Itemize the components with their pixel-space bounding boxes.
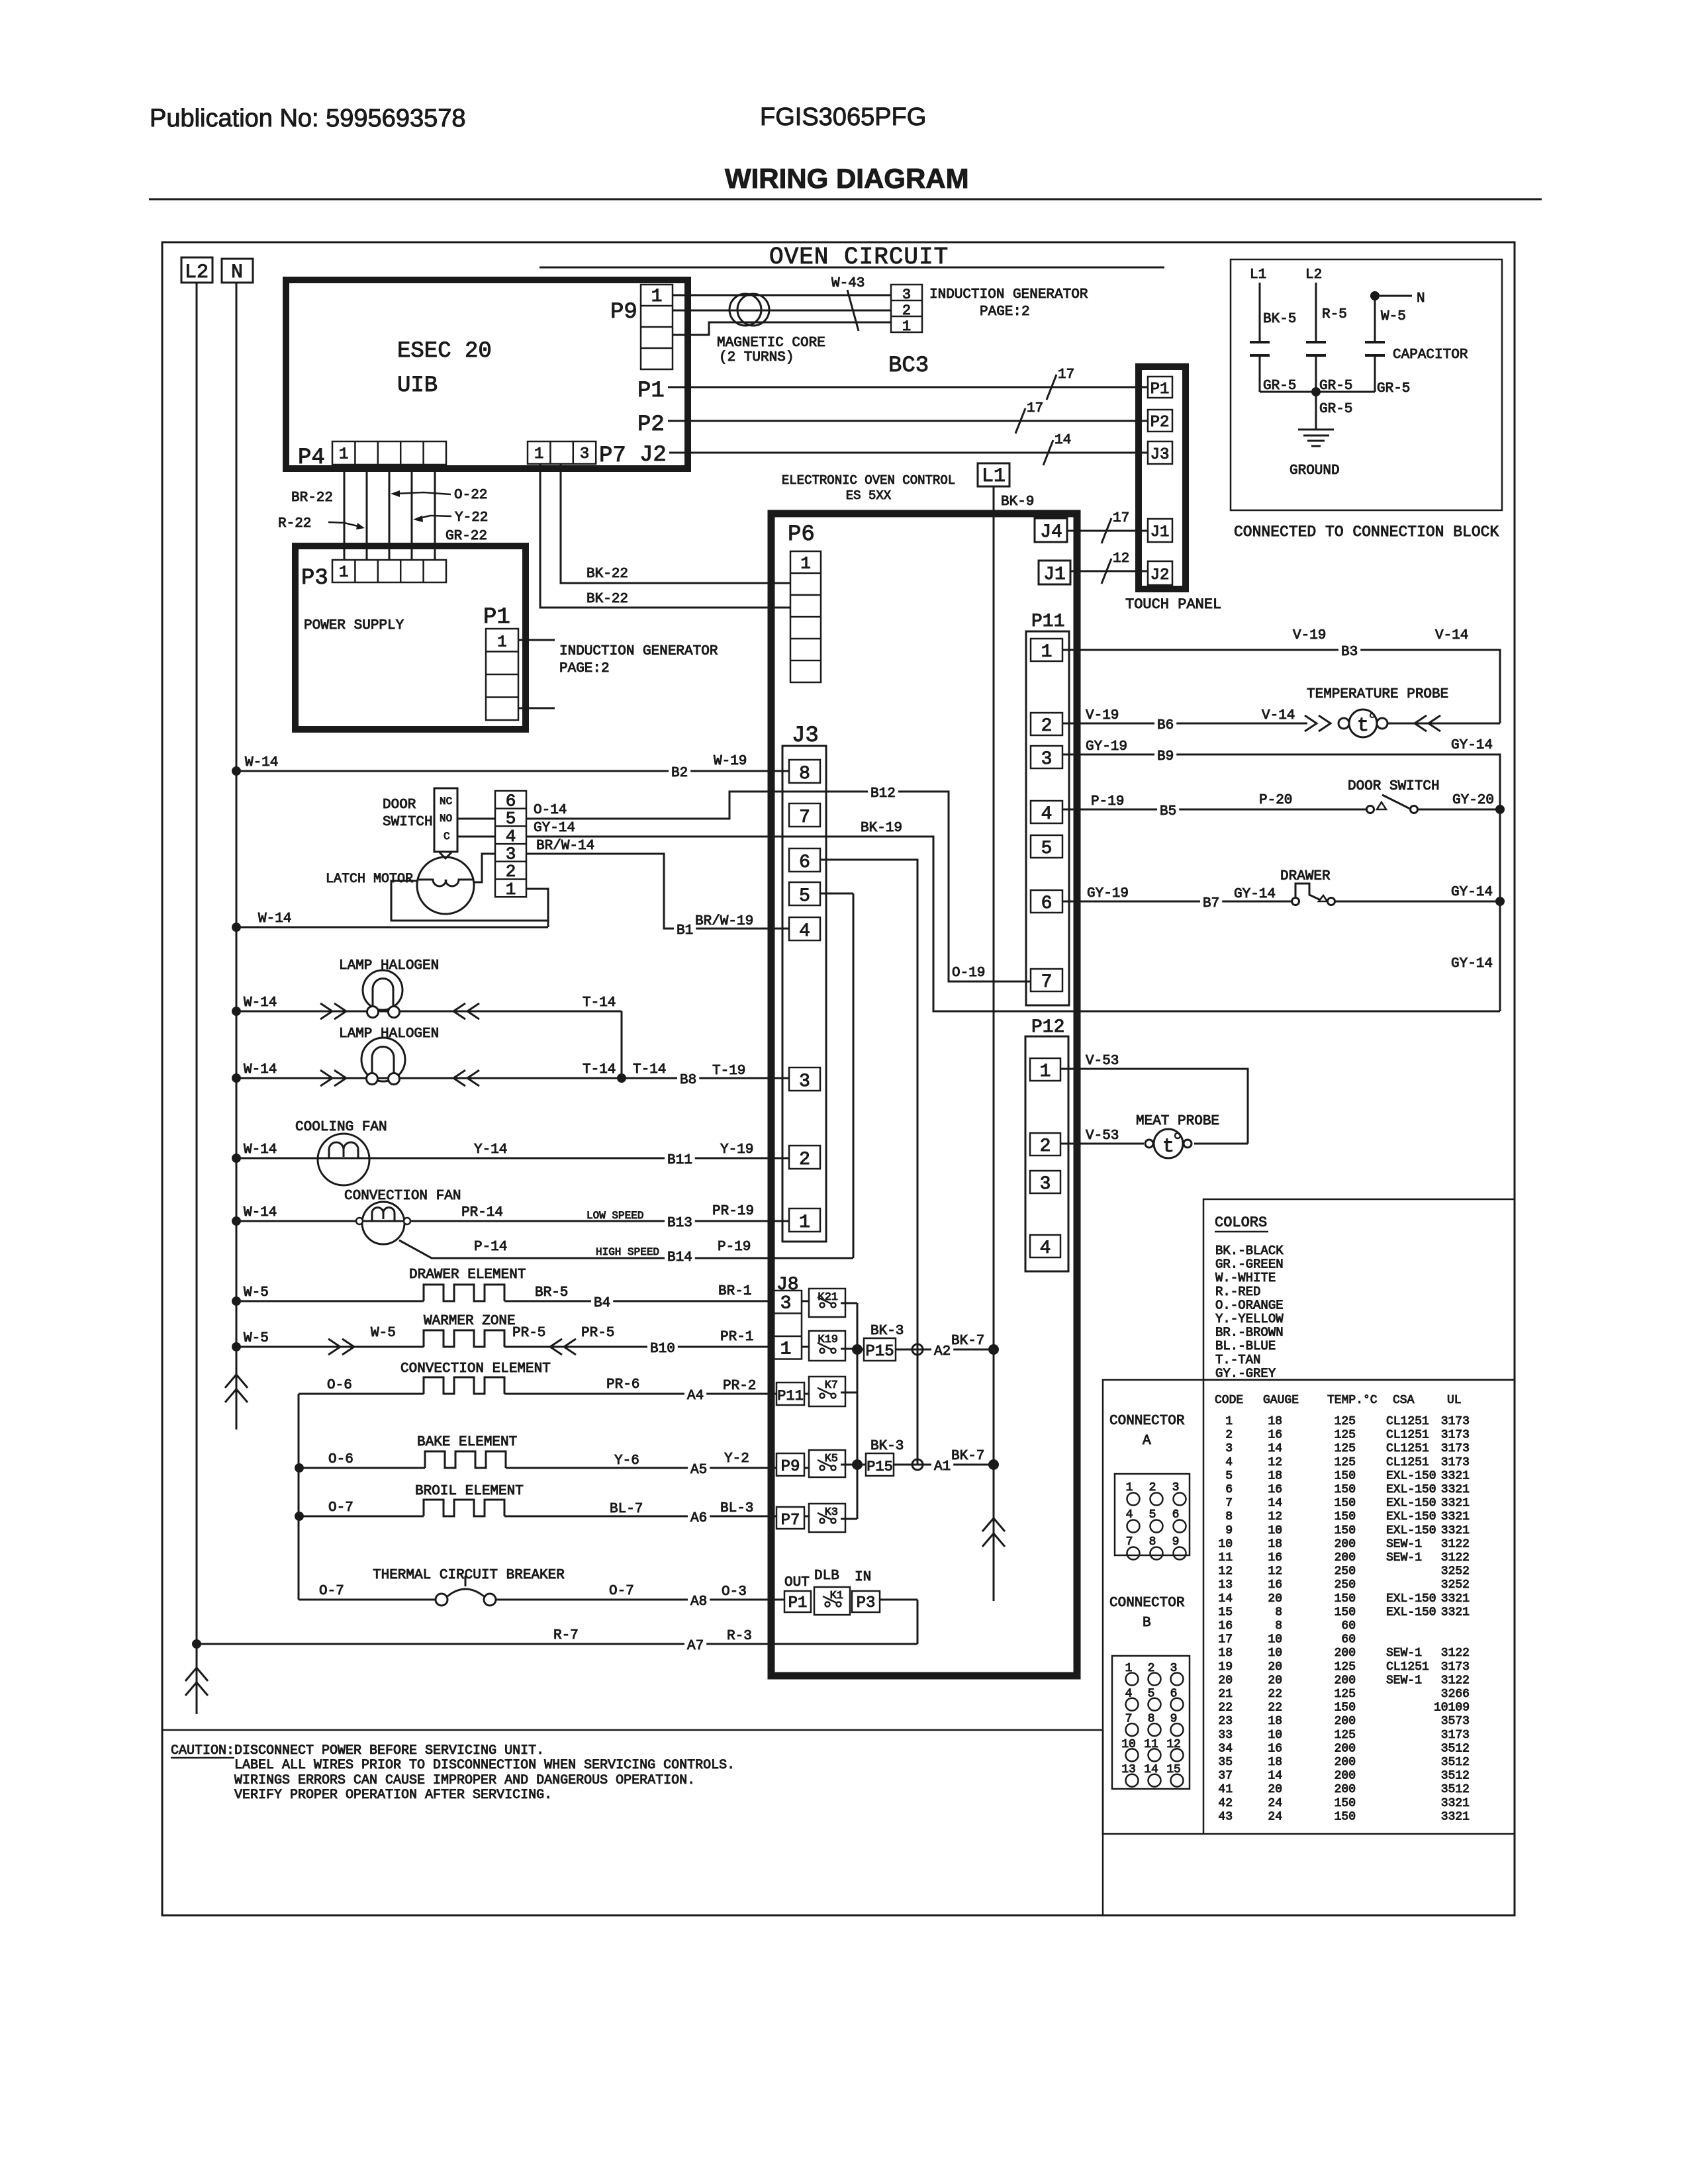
svg-text:P1: P1 xyxy=(637,379,665,404)
wire convection fan high speed to J3-5 xyxy=(399,1240,853,1258)
connector J3 pin 1 xyxy=(789,1208,820,1232)
svg-text:10: 10 xyxy=(1268,1729,1282,1742)
connector P11 pin 5 xyxy=(1031,835,1062,858)
svg-text:GY-14: GY-14 xyxy=(1451,738,1493,753)
wire code table divider xyxy=(1203,1380,1205,1834)
svg-text:BR.-BROWN: BR.-BROWN xyxy=(1215,1326,1284,1340)
wire BK-22 from P7-2 to P6-2 xyxy=(561,464,790,583)
lamp halogen 2 xyxy=(361,1038,405,1081)
svg-text:B: B xyxy=(1143,1615,1151,1631)
svg-text:Y-19: Y-19 xyxy=(720,1142,753,1158)
meat probe xyxy=(1145,1140,1153,1148)
svg-text:GR-5: GR-5 xyxy=(1377,381,1410,396)
svg-text:t: t xyxy=(1162,1136,1174,1158)
svg-text:TEMPERATURE PROBE: TEMPERATURE PROBE xyxy=(1307,687,1448,702)
wire lamp1 to lamp2 row drop xyxy=(621,1011,623,1078)
svg-text:UIB: UIB xyxy=(397,373,438,398)
svg-text:Publication No: 5995693578: Publication No: 5995693578 xyxy=(150,105,466,132)
svg-text:DRAWER: DRAWER xyxy=(1280,869,1331,884)
svg-text:W-14: W-14 xyxy=(258,911,291,927)
convection fan motor xyxy=(362,1202,404,1244)
svg-text:CSA: CSA xyxy=(1393,1394,1415,1407)
lamp2 inline connector chevrons xyxy=(320,1070,332,1086)
svg-text:J2: J2 xyxy=(639,443,667,468)
svg-text:200: 200 xyxy=(1335,1756,1356,1769)
svg-text:BL-7: BL-7 xyxy=(610,1502,643,1517)
wire P4-1 to P3-1 xyxy=(344,465,346,560)
svg-text:14: 14 xyxy=(1268,1770,1282,1783)
svg-text:O-14: O-14 xyxy=(534,803,567,818)
svg-text:10109: 10109 xyxy=(1434,1702,1470,1715)
svg-text:OUT: OUT xyxy=(784,1575,810,1590)
wire J4 to touch panel J1 xyxy=(1067,530,1148,532)
svg-text:18: 18 xyxy=(1268,1756,1282,1769)
svg-text:3: 3 xyxy=(799,1071,810,1092)
svg-text:T-14: T-14 xyxy=(633,1062,666,1077)
svg-text:Y-22: Y-22 xyxy=(455,510,488,525)
wire GY-19 / B7 / GY-14 from P11-6 to drawer switch xyxy=(1062,901,1291,903)
svg-text:P15: P15 xyxy=(867,1459,893,1475)
svg-text:LOW SPEED: LOW SPEED xyxy=(586,1210,643,1222)
svg-text:3: 3 xyxy=(1040,1174,1051,1195)
wire P-19 / B5 / P-20 from P11-4 to door switch xyxy=(1062,809,1366,811)
wire W-14 lamp2 row to J3-3 xyxy=(232,1073,241,1083)
svg-text:W-14: W-14 xyxy=(244,1142,277,1158)
wire J3-6 drop to A2/A1 connectors xyxy=(820,860,917,1465)
wire meat probe to V-53 loop xyxy=(1194,1143,1248,1145)
svg-text:33: 33 xyxy=(1218,1729,1233,1742)
connector J3 pin 4 xyxy=(789,917,820,940)
svg-text:5: 5 xyxy=(799,886,810,907)
svg-text:CAUTION:: CAUTION: xyxy=(171,1743,234,1758)
svg-text:EXL-150: EXL-150 xyxy=(1386,1592,1436,1606)
svg-text:P4: P4 xyxy=(298,445,325,471)
svg-text:20: 20 xyxy=(1268,1674,1282,1687)
svg-text:CL1251: CL1251 xyxy=(1386,1415,1429,1428)
svg-text:NO: NO xyxy=(440,813,452,825)
svg-text:P11: P11 xyxy=(777,1388,804,1404)
svg-text:13: 13 xyxy=(1218,1578,1233,1592)
svg-text:BR/W-19: BR/W-19 xyxy=(695,914,753,929)
svg-text:2: 2 xyxy=(799,1150,810,1170)
door switch connector cells 6-1 xyxy=(495,791,526,897)
cooling fan motor xyxy=(318,1134,369,1185)
svg-text:1: 1 xyxy=(799,1212,810,1233)
oven circuit underline xyxy=(539,267,1164,269)
svg-text:5: 5 xyxy=(506,809,516,829)
svg-text:EXL-150: EXL-150 xyxy=(1386,1510,1436,1524)
svg-text:B10: B10 xyxy=(650,1342,675,1357)
svg-text:20: 20 xyxy=(1268,1592,1282,1606)
svg-text:N: N xyxy=(231,261,243,284)
svg-text:O-6: O-6 xyxy=(328,1452,353,1467)
svg-text:22: 22 xyxy=(1268,1702,1282,1715)
temperature probe right side chevrons and wire xyxy=(1387,723,1500,725)
svg-text:BK.-BLACK: BK.-BLACK xyxy=(1215,1244,1284,1258)
svg-text:20: 20 xyxy=(1268,1783,1282,1796)
svg-text:T-14: T-14 xyxy=(583,1062,616,1077)
svg-text:EXL-150: EXL-150 xyxy=(1386,1497,1436,1510)
svg-text:P-19: P-19 xyxy=(1091,794,1124,809)
svg-text:P1: P1 xyxy=(788,1594,808,1612)
svg-text:WIRINGS ERRORS CAN CAUSE IMPRO: WIRINGS ERRORS CAN CAUSE IMPROPER AND DA… xyxy=(234,1773,695,1788)
svg-text:60: 60 xyxy=(1341,1633,1356,1647)
svg-text:V-19: V-19 xyxy=(1086,708,1119,723)
svg-text:BK-9: BK-9 xyxy=(1001,494,1034,510)
svg-text:A8: A8 xyxy=(690,1594,707,1610)
node N box xyxy=(222,259,253,283)
svg-text:3173: 3173 xyxy=(1441,1456,1470,1469)
svg-text:16: 16 xyxy=(1268,1578,1282,1592)
relay K21 xyxy=(809,1289,845,1317)
svg-text:BK-7: BK-7 xyxy=(951,1334,984,1349)
svg-text:125: 125 xyxy=(1335,1429,1356,1442)
wire P4-4 to P3-4 xyxy=(411,465,413,560)
node L1 box xyxy=(978,463,1009,486)
svg-text:A4: A4 xyxy=(687,1388,704,1404)
svg-text:L2: L2 xyxy=(1305,267,1322,283)
svg-text:W-5: W-5 xyxy=(244,1331,269,1346)
svg-text:2: 2 xyxy=(1041,716,1053,737)
module TOUCH PANEL xyxy=(1139,367,1186,589)
svg-text:12: 12 xyxy=(1113,551,1129,567)
connector P11 pin 6 xyxy=(1031,890,1062,913)
wire GY-20 door switch to bus junction xyxy=(1418,809,1500,811)
svg-text:125: 125 xyxy=(1335,1729,1356,1742)
svg-text:16: 16 xyxy=(1268,1483,1282,1496)
svg-text:MAGNETIC CORE: MAGNETIC CORE xyxy=(717,336,825,351)
svg-text:T.-TAN: T.-TAN xyxy=(1215,1353,1260,1367)
connector P11 pin 1 xyxy=(1031,639,1062,661)
svg-text:L1: L1 xyxy=(982,465,1006,488)
svg-text:PAGE:2: PAGE:2 xyxy=(980,304,1030,320)
svg-text:PAGE:2: PAGE:2 xyxy=(559,661,610,676)
svg-text:O-3: O-3 xyxy=(722,1584,747,1600)
wire O-6 convection element row to P11 relay box xyxy=(299,1393,424,1395)
svg-text:B9: B9 xyxy=(1157,749,1174,764)
svg-text:SEW-1: SEW-1 xyxy=(1386,1647,1422,1660)
svg-text:DISCONNECT POWER BEFORE SERVIC: DISCONNECT POWER BEFORE SERVICING UNIT. xyxy=(234,1743,544,1758)
svg-text:CL1251: CL1251 xyxy=(1386,1661,1429,1674)
svg-text:3: 3 xyxy=(506,844,516,864)
svg-text:22: 22 xyxy=(1268,1688,1282,1701)
svg-text:17: 17 xyxy=(1058,367,1074,383)
connector P12 pin 2 xyxy=(1030,1133,1060,1156)
svg-text:W-5: W-5 xyxy=(1381,309,1406,324)
svg-text:P2: P2 xyxy=(637,412,665,437)
wire K19 output to node xyxy=(841,1348,857,1350)
wire N bus vertical xyxy=(236,283,238,1430)
svg-text:EXL-150: EXL-150 xyxy=(1386,1524,1436,1537)
svg-text:CONVECTION FAN: CONVECTION FAN xyxy=(344,1189,461,1204)
svg-text:200: 200 xyxy=(1335,1551,1356,1565)
svg-text:SWITCH: SWITCH xyxy=(383,815,433,830)
wire V-19 / B3 / V-14 from P11-1 xyxy=(1062,650,1500,723)
EOC connector J4 box xyxy=(1035,518,1067,542)
svg-text:P1: P1 xyxy=(1150,381,1170,398)
svg-text:24: 24 xyxy=(1268,1810,1282,1823)
svg-text:O-7: O-7 xyxy=(609,1584,634,1599)
svg-text:L1: L1 xyxy=(1250,267,1266,283)
wire K5 output node xyxy=(841,1464,857,1466)
svg-text:CONNECTOR: CONNECTOR xyxy=(1109,1596,1185,1611)
svg-text:150: 150 xyxy=(1335,1524,1356,1537)
connector P11 pin 4 xyxy=(1031,801,1062,823)
relay output bus vertical xyxy=(857,1303,859,1519)
svg-text:1: 1 xyxy=(651,287,663,307)
svg-text:150: 150 xyxy=(1335,1592,1356,1606)
tick 17 on P1 wire xyxy=(1047,375,1056,400)
touch panel pin J2 xyxy=(1148,561,1172,585)
svg-text:BC3: BC3 xyxy=(888,353,929,379)
svg-text:14: 14 xyxy=(1268,1442,1282,1455)
svg-text:200: 200 xyxy=(1335,1783,1356,1796)
svg-text:250: 250 xyxy=(1335,1565,1356,1578)
svg-text:37: 37 xyxy=(1218,1770,1233,1783)
module ELECTRONIC OVEN CONTROL ES 5XX xyxy=(771,514,1077,1676)
svg-text:BROIL ELEMENT: BROIL ELEMENT xyxy=(415,1484,524,1499)
connector J3 pin 8 xyxy=(789,760,820,783)
svg-text:34: 34 xyxy=(1218,1742,1233,1755)
latch motor xyxy=(417,857,474,914)
svg-text:W-14: W-14 xyxy=(245,755,278,770)
svg-text:N: N xyxy=(1417,291,1425,306)
svg-text:3321: 3321 xyxy=(1441,1592,1470,1606)
svg-text:2: 2 xyxy=(1040,1136,1051,1157)
tick 14 on J2 wire xyxy=(1043,440,1053,465)
wire latch motor right to pin 1... pin3 xyxy=(474,854,495,882)
svg-text:18: 18 xyxy=(1268,1469,1282,1482)
N bus continuation chevrons xyxy=(225,1375,248,1388)
connector J3 pin 7 xyxy=(789,803,820,827)
wire V-19/B6/V-14 from P11-2 to temperature probe xyxy=(1062,723,1307,725)
capacitor block enclosure xyxy=(1231,259,1502,510)
svg-text:PR-5: PR-5 xyxy=(581,1326,614,1341)
svg-text:4: 4 xyxy=(1041,804,1053,825)
svg-text:3321: 3321 xyxy=(1441,1469,1470,1482)
svg-text:SEW-1: SEW-1 xyxy=(1386,1674,1422,1687)
svg-text:A: A xyxy=(1143,1433,1151,1449)
wire GY-19 / B9 / GY-14 from P11-3 to right bus xyxy=(1062,754,1500,809)
svg-text:T-19: T-19 xyxy=(712,1064,745,1079)
svg-text:DLB: DLB xyxy=(814,1569,839,1584)
svg-text:R-5: R-5 xyxy=(1322,307,1347,322)
svg-text:L2: L2 xyxy=(185,261,209,284)
svg-text:B6: B6 xyxy=(1157,718,1174,733)
svg-text:P6: P6 xyxy=(788,522,815,547)
connector P12 pin 3 xyxy=(1030,1171,1060,1193)
wire P4-3 to P3-3 xyxy=(389,465,391,560)
door switch contact xyxy=(1367,806,1374,813)
svg-text:3321: 3321 xyxy=(1441,1524,1470,1537)
lamp halogen 1 xyxy=(363,970,402,1010)
svg-text:150: 150 xyxy=(1335,1797,1356,1810)
svg-text:11: 11 xyxy=(1218,1551,1233,1565)
svg-text:200: 200 xyxy=(1335,1674,1356,1687)
svg-text:4: 4 xyxy=(1040,1238,1051,1259)
wire C to pin 4 xyxy=(457,836,495,838)
touch panel pin P1 xyxy=(1148,377,1172,398)
relay K3 xyxy=(809,1504,845,1532)
wire K21 output xyxy=(841,1302,857,1304)
svg-text:P7: P7 xyxy=(781,1512,800,1529)
svg-text:W-5: W-5 xyxy=(371,1326,396,1341)
svg-text:4: 4 xyxy=(506,827,516,846)
svg-text:B3: B3 xyxy=(1341,645,1358,660)
svg-text:3173: 3173 xyxy=(1441,1415,1470,1428)
svg-text:W-14: W-14 xyxy=(244,995,277,1011)
svg-text:10: 10 xyxy=(1268,1524,1282,1537)
svg-text:BL-3: BL-3 xyxy=(720,1501,753,1516)
wire W-14 convection fan row (low speed) to J3-1 xyxy=(232,1216,241,1226)
svg-text:TOUCH PANEL: TOUCH PANEL xyxy=(1125,596,1221,613)
svg-text:200: 200 xyxy=(1335,1715,1356,1728)
svg-text:18: 18 xyxy=(1268,1715,1282,1728)
svg-text:J8: J8 xyxy=(776,1275,799,1295)
BK-9 continuation chevrons xyxy=(982,1518,1005,1531)
wire O-14 / B12 / O-19 from pin5 to P11-7 xyxy=(526,792,1031,981)
svg-text:BR-1: BR-1 xyxy=(718,1284,751,1299)
svg-text:1: 1 xyxy=(534,445,543,463)
svg-text:NC: NC xyxy=(440,796,452,807)
wire P4-2 to P3-2 xyxy=(366,465,368,560)
wire W-5 warmer zone row to J8-1 xyxy=(232,1342,241,1351)
wire W-14 bus row 2 xyxy=(232,923,241,932)
svg-text:P7: P7 xyxy=(599,443,626,469)
connector B pin chart xyxy=(1112,1656,1190,1789)
svg-text:Y-14: Y-14 xyxy=(474,1142,507,1158)
svg-text:20: 20 xyxy=(1268,1661,1282,1674)
svg-text:BK-19: BK-19 xyxy=(861,821,902,836)
svg-text:CODE: CODE xyxy=(1215,1394,1243,1407)
svg-text:18: 18 xyxy=(1268,1415,1282,1428)
svg-text:COLORS: COLORS xyxy=(1215,1214,1267,1231)
svg-text:150: 150 xyxy=(1335,1497,1356,1510)
svg-text:UL: UL xyxy=(1447,1394,1462,1407)
wire L2 to capacitor 2 xyxy=(1315,283,1317,342)
svg-text:ES 5XX: ES 5XX xyxy=(846,488,892,503)
wire element feed vertical xyxy=(298,1394,300,1600)
svg-text:CAPACITOR: CAPACITOR xyxy=(1393,347,1468,363)
svg-text:B4: B4 xyxy=(594,1296,610,1311)
wire K3 output up to node xyxy=(841,1518,857,1520)
capacitor C3 plates xyxy=(1365,341,1385,343)
svg-text:35: 35 xyxy=(1218,1756,1233,1769)
svg-text:P-14: P-14 xyxy=(474,1240,507,1255)
svg-text:19: 19 xyxy=(1218,1661,1233,1674)
connector P6 cells xyxy=(790,551,821,682)
svg-text:B13: B13 xyxy=(667,1216,692,1231)
wire latch motor left loop to pin 1 xyxy=(391,881,548,921)
svg-text:GR-22: GR-22 xyxy=(445,529,487,544)
wire BK-3 / A1 / BK-7 to BK-9 bus xyxy=(894,1464,991,1466)
svg-text:12: 12 xyxy=(1268,1456,1282,1469)
plug P11 (convection relay input) xyxy=(776,1383,804,1405)
wire GY-14 / BK-19 from pin4 to right GY-14 bus xyxy=(526,837,1500,1011)
svg-text:1: 1 xyxy=(780,1339,792,1359)
svg-text:8: 8 xyxy=(799,764,810,784)
svg-text:150: 150 xyxy=(1335,1702,1356,1715)
svg-text:20: 20 xyxy=(1218,1674,1233,1687)
wire J1 to touch panel J2 xyxy=(1070,570,1148,572)
svg-text:SEW-1: SEW-1 xyxy=(1386,1537,1422,1551)
svg-text:15: 15 xyxy=(1218,1606,1233,1619)
plug P15 (lower) xyxy=(866,1453,894,1476)
wire V-53 from P12-2 to meat probe xyxy=(1060,1143,1144,1145)
svg-text:1: 1 xyxy=(506,880,516,899)
svg-text:3321: 3321 xyxy=(1441,1483,1470,1496)
svg-text:3: 3 xyxy=(1041,749,1053,770)
svg-text:V-14: V-14 xyxy=(1435,628,1468,643)
svg-text:P-20: P-20 xyxy=(1259,793,1292,808)
svg-text:WARMER ZONE: WARMER ZONE xyxy=(424,1314,516,1329)
wire P1-4 stub xyxy=(518,707,555,709)
svg-text:R.-RED: R.-RED xyxy=(1215,1285,1260,1299)
svg-text:PR-1: PR-1 xyxy=(720,1330,753,1345)
svg-text:2: 2 xyxy=(902,302,911,319)
svg-text:4: 4 xyxy=(1225,1456,1233,1469)
svg-text:6: 6 xyxy=(506,791,516,811)
svg-text:200: 200 xyxy=(1335,1742,1356,1755)
connector P7 cells xyxy=(528,441,596,464)
module POWER SUPPLY xyxy=(295,546,526,729)
wire P3 to R-3 return xyxy=(880,1599,917,1601)
svg-text:GR-5: GR-5 xyxy=(1319,402,1352,417)
svg-text:CONVECTION ELEMENT: CONVECTION ELEMENT xyxy=(400,1361,551,1377)
svg-text:GR.-GREEN: GR.-GREEN xyxy=(1215,1257,1284,1272)
connector P12 pin 4 xyxy=(1030,1235,1060,1257)
node L2 box xyxy=(181,257,212,283)
svg-text:125: 125 xyxy=(1335,1688,1356,1701)
svg-text:18: 18 xyxy=(1268,1537,1282,1551)
svg-text:BK-3: BK-3 xyxy=(870,1439,904,1454)
svg-text:V-53: V-53 xyxy=(1086,1054,1119,1069)
connector P1 cells (power supply) xyxy=(486,629,518,720)
svg-text:TEMP.°C: TEMP.°C xyxy=(1327,1394,1378,1407)
svg-text:3321: 3321 xyxy=(1441,1606,1470,1619)
svg-text:9: 9 xyxy=(1225,1524,1233,1537)
svg-text:P3: P3 xyxy=(857,1594,876,1612)
svg-text:16: 16 xyxy=(1268,1551,1282,1565)
svg-text:P-19: P-19 xyxy=(718,1240,751,1255)
connector A pin chart xyxy=(1115,1474,1190,1555)
induction generator connector pins 3-2-1 xyxy=(891,285,922,332)
touch panel pin J3 xyxy=(1148,441,1172,464)
plug P15 (upper) xyxy=(864,1338,896,1361)
svg-text:125: 125 xyxy=(1335,1456,1356,1469)
svg-text:Y-2: Y-2 xyxy=(724,1451,749,1467)
wire V-53 from P12-1 xyxy=(1060,1069,1248,1144)
svg-text:125: 125 xyxy=(1335,1415,1356,1428)
wire N feed xyxy=(1375,295,1412,297)
svg-text:250: 250 xyxy=(1335,1578,1356,1592)
svg-text:P11: P11 xyxy=(1031,612,1064,632)
capacitor C2 plates xyxy=(1306,341,1326,343)
relay K1 (DLB) xyxy=(814,1587,850,1615)
svg-text:8: 8 xyxy=(1225,1510,1233,1524)
svg-text:43: 43 xyxy=(1218,1810,1233,1823)
wire L2 bus vertical xyxy=(196,283,198,1644)
magnetic core (2 turns) xyxy=(729,294,761,326)
svg-text:3122: 3122 xyxy=(1441,1674,1470,1687)
svg-text:P12: P12 xyxy=(1031,1017,1064,1038)
wire BK-22 from P7-1 to P6-3 xyxy=(540,464,790,608)
svg-text:3512: 3512 xyxy=(1441,1756,1470,1769)
svg-text:GY-19: GY-19 xyxy=(1086,739,1127,754)
connector P4 cells xyxy=(332,441,446,465)
svg-text:6: 6 xyxy=(799,852,810,873)
wire L1 to capacitor 1 xyxy=(1259,283,1261,342)
